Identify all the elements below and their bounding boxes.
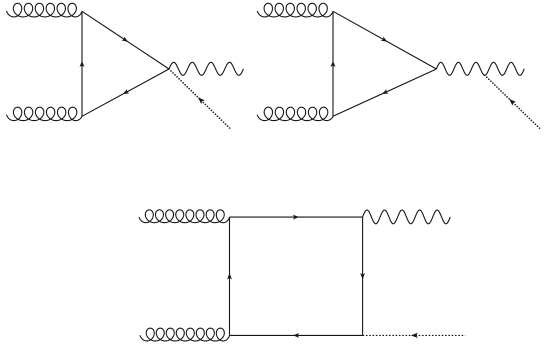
fermion line V2-V1 (left side of triangle 1): [81, 11, 83, 116]
gluon g3 (incoming, top-left of diagram 2): [257, 3, 333, 17]
arrow on fermion BL-TL (up): [227, 273, 232, 279]
arrow on fermion V1-V3: [121, 36, 128, 42]
fermion line TL-TR (top side of box): [230, 216, 363, 218]
photon wavy line (outgoing, box diagram): [363, 210, 451, 224]
gluon g5 (incoming, top of box): [139, 210, 230, 223]
arrow on fermion TL-TR (right): [293, 215, 299, 220]
arrow on scalar line (diagram 2, toward photon): [509, 99, 516, 106]
fermion line W2-W1 (left side of triangle 2): [332, 11, 334, 116]
gluon g2 (incoming, bottom-left): [7, 107, 83, 120]
fermion line W1-W3 (top side of triangle 2): [333, 11, 436, 69]
photon wavy line (diagram 2): [436, 62, 524, 75]
arrow on fermion W1-W3: [381, 36, 388, 41]
fermion line TR-BR (right side of box): [362, 217, 364, 335]
fermion line V1-V3 (top side of triangle 1): [82, 11, 169, 69]
scalar dotted line (diagram 1): [168, 68, 230, 129]
arrow on fermion V2-V1 (up): [80, 61, 85, 67]
fermion line V3-V2 (bottom side of triangle 1): [82, 69, 169, 116]
arrow on fermion V3-V2: [123, 89, 130, 94]
arrow on fermion W2-W1 (up): [331, 61, 336, 67]
gluon g6 (incoming, bottom of box): [140, 328, 230, 341]
arrow on scalar line (diagram 1, toward vertex): [198, 97, 205, 104]
arrow on fermion BR-BL (left): [293, 333, 299, 338]
fermion line BL-TL (left side of box): [229, 217, 231, 335]
arrow on scalar line (box diagram, toward box): [411, 333, 418, 338]
arrow on fermion W3-W2: [382, 89, 389, 94]
photon wavy line (outgoing, diagram 1): [169, 62, 244, 75]
gluon g1 (incoming, top-left): [7, 3, 83, 17]
fermion line W3-W2 (bottom side of triangle 2): [333, 69, 436, 116]
gluon g4 (incoming, bottom-left of diagram 2): [257, 107, 333, 120]
fermion line BR-BL (bottom side of box): [230, 334, 363, 336]
scalar dotted line (diagram 2, from photon): [484, 75, 540, 129]
arrow on fermion TR-BR (down): [360, 273, 365, 279]
scalar dotted line (box diagram): [363, 334, 466, 336]
